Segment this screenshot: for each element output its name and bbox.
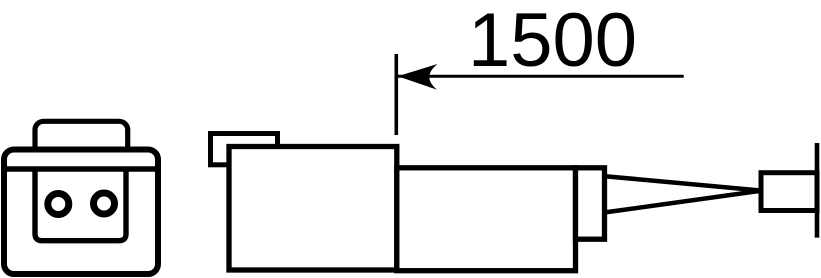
connector P1 pin 2 — [94, 193, 115, 214]
connector P1 pin 1 — [48, 194, 69, 215]
connector P1 front view: housing flange line — [2, 166, 160, 171]
dimension extension line — [394, 54, 398, 135]
dimension arrowhead — [398, 64, 438, 90]
connector P1 front view: cavity — [35, 169, 126, 241]
dimension line 1500 — [398, 75, 684, 78]
connector P2 body — [761, 173, 817, 211]
connector P1 side view: rear shell — [397, 168, 576, 271]
connector P1 front view: outer housing — [4, 150, 158, 275]
connector P1 side view: housing body — [229, 147, 397, 271]
connector P1 front view: latch tab — [35, 121, 128, 163]
wire upper — [605, 176, 759, 190]
connector P1 side view: latch tab — [211, 134, 278, 165]
connector P2 mating face line — [815, 143, 820, 238]
wire lower — [605, 191, 759, 212]
connector P1 side view: cable boot — [576, 168, 605, 239]
svg-text:1500: 1500 — [468, 0, 637, 83]
